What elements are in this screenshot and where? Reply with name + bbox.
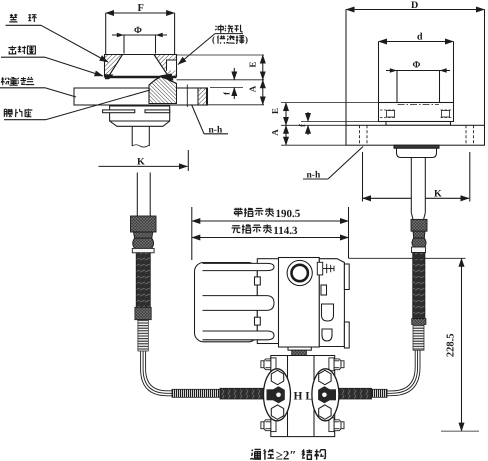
dimension F <box>106 3 175 54</box>
diaphragm seat (hatched) <box>149 77 177 104</box>
left capillary curve <box>141 351 173 396</box>
svg-text:f: f <box>297 124 307 127</box>
label n-h (right view) <box>303 147 363 181</box>
bolt-hole hidden line (left view) <box>175 90 177 102</box>
dimension with-indicator 190.5 <box>192 207 349 260</box>
svg-text:E: E <box>248 61 258 67</box>
left oval flange adapter <box>264 369 291 421</box>
diaphragm capsule body <box>110 106 170 126</box>
bolt hole centerline <box>186 85 188 108</box>
dimension 228.5 <box>349 258 480 431</box>
electronics body <box>279 258 320 348</box>
side cap slot bottom <box>322 329 332 341</box>
dimension K (right view) <box>363 152 470 202</box>
cover rib middle <box>203 296 275 311</box>
panel clip top <box>255 277 261 285</box>
svg-text:190.5: 190.5 <box>276 208 301 220</box>
hex bolt left-top <box>271 370 283 384</box>
right capillary curve <box>386 350 420 396</box>
left armored sleeve (vertical) <box>136 253 150 307</box>
bolt bottom-left <box>261 418 276 432</box>
label mi-feng-quan (seal ring) <box>1 46 103 76</box>
sensor module top <box>280 356 324 369</box>
label song-tao-fa-lan (loose flange) <box>0 77 76 97</box>
side cap bump top <box>344 264 349 290</box>
dimensions E, A, f (right view) <box>270 103 386 146</box>
svg-text:E: E <box>270 108 280 114</box>
label dian-huan (gasket ring) <box>6 14 109 62</box>
left knurled connector <box>131 216 157 253</box>
label mo-pian-zuo (diaphragm seat) <box>4 90 150 120</box>
right oval flange adapter <box>312 369 339 421</box>
svg-text:A: A <box>248 85 258 92</box>
bolt top-right <box>329 358 344 371</box>
neck knurled ring <box>292 350 307 355</box>
dimension K (left view) <box>99 150 189 171</box>
capsule tab bar <box>103 110 135 113</box>
svg-text:228.5: 228.5 <box>446 333 457 357</box>
panel clip bottom <box>255 317 261 325</box>
side cap bump bottom <box>344 322 349 348</box>
center column lines <box>287 356 289 437</box>
hex bolt right-top <box>319 370 331 384</box>
H port fitting (left, dark) <box>267 386 285 403</box>
dimensions E and A (left view) <box>177 55 265 105</box>
right sleeve end collar <box>412 319 426 325</box>
flush hole (white opening in right wall) <box>167 60 177 71</box>
hex bolt right-bottom <box>319 405 331 419</box>
svg-text:Φ: Φ <box>134 26 142 36</box>
flange block <box>271 356 335 437</box>
right knurled connector <box>411 219 427 252</box>
bolt bottom-right <box>329 418 344 432</box>
dimension without-indicator 114.3 <box>192 224 349 237</box>
dimension Phi (left view) <box>112 26 167 54</box>
gasket ring (cross-section body) <box>105 55 177 78</box>
seal ring black wedge left <box>105 74 114 79</box>
raised face <box>386 122 451 126</box>
svg-text:): ) <box>245 35 248 45</box>
left sleeve end collar <box>135 307 151 319</box>
left horizontal rib section <box>172 389 220 397</box>
cover rib bottom <box>203 331 275 340</box>
display cover cap <box>195 263 258 342</box>
svg-text:114.3: 114.3 <box>273 225 298 237</box>
dimension d <box>379 32 454 103</box>
label n-h (left view) <box>192 105 229 136</box>
right spring guard <box>413 324 424 350</box>
cover rib top <box>203 263 275 270</box>
left spring guard (vertical) <box>138 320 148 351</box>
plate section hatch at bolt <box>198 88 207 105</box>
left horizontal sleeve to H port <box>220 388 268 399</box>
flange hub (right view) <box>379 103 454 122</box>
bolt top-left <box>261 358 276 371</box>
label chong-xi-kong (flush hole, optional) <box>178 25 248 65</box>
right armored sleeve (vertical) <box>413 253 425 319</box>
hex bolt left-bottom <box>271 405 283 419</box>
neck below housing <box>288 347 311 350</box>
flange plate (right view) <box>346 125 485 145</box>
loose flange plate <box>74 88 208 105</box>
svg-text:≥2″: ≥2″ <box>276 448 297 461</box>
cover base panel <box>257 259 278 344</box>
svg-text:H L: H L <box>294 391 314 403</box>
caption: bore >= 2 inch structure <box>250 448 325 461</box>
svg-text:F: F <box>138 3 144 14</box>
dimension D <box>346 0 485 125</box>
right horizontal sleeve to L port <box>331 388 372 399</box>
L port fitting (right, dark) <box>318 386 336 403</box>
svg-text:D: D <box>411 0 418 11</box>
seal ring black wedge right <box>160 74 174 81</box>
svg-text:K: K <box>137 157 145 168</box>
dimension f (left view) <box>177 68 265 99</box>
right horizontal rib section <box>372 389 388 397</box>
svg-text:d: d <box>417 32 423 43</box>
left capillary tube (upper white tube) <box>137 173 150 217</box>
svg-text:Φ: Φ <box>413 61 421 71</box>
svg-text:f: f <box>222 92 232 95</box>
capsule stem <box>132 126 149 147</box>
capsule (right view) <box>394 145 439 157</box>
dimension Phi (right view) <box>386 61 450 122</box>
side cap slot small <box>321 285 327 295</box>
terminal side cap <box>319 259 344 347</box>
svg-text:K: K <box>434 189 442 200</box>
svg-text:A: A <box>270 129 280 136</box>
side cap slot middle <box>322 304 334 321</box>
stem (right view) <box>411 158 425 220</box>
vent screw on top <box>317 262 334 275</box>
top boss ring <box>287 260 312 285</box>
